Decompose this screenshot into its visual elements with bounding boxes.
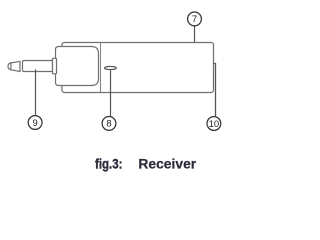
plug taper segment [11,61,20,71]
callout circle 10 [207,117,221,131]
callout circle 8 [102,117,116,131]
svg-text:7: 7 [192,14,197,25]
callout circle 9 [28,116,42,130]
svg-text:10: 10 [209,119,220,130]
clip / leader line to 10 [214,64,216,117]
plug tip [8,63,11,70]
leader line to 9 [35,69,37,116]
svg-text:8: 8 [106,119,111,130]
leader line to 7 [194,26,196,43]
svg-text:Receiver: Receiver [138,156,196,172]
receiver body (housing 7) [62,43,214,93]
callout circle 7 [188,12,202,26]
plug collar [53,58,57,74]
svg-text:9: 9 [32,118,37,129]
LED window (8) [105,66,117,69]
socket housing (rounded square) [56,47,99,86]
body seam line [100,43,102,92]
leader line to 8 [110,70,112,117]
svg-text:fig.3:: fig.3: [95,155,122,171]
plug barrel [23,61,53,72]
